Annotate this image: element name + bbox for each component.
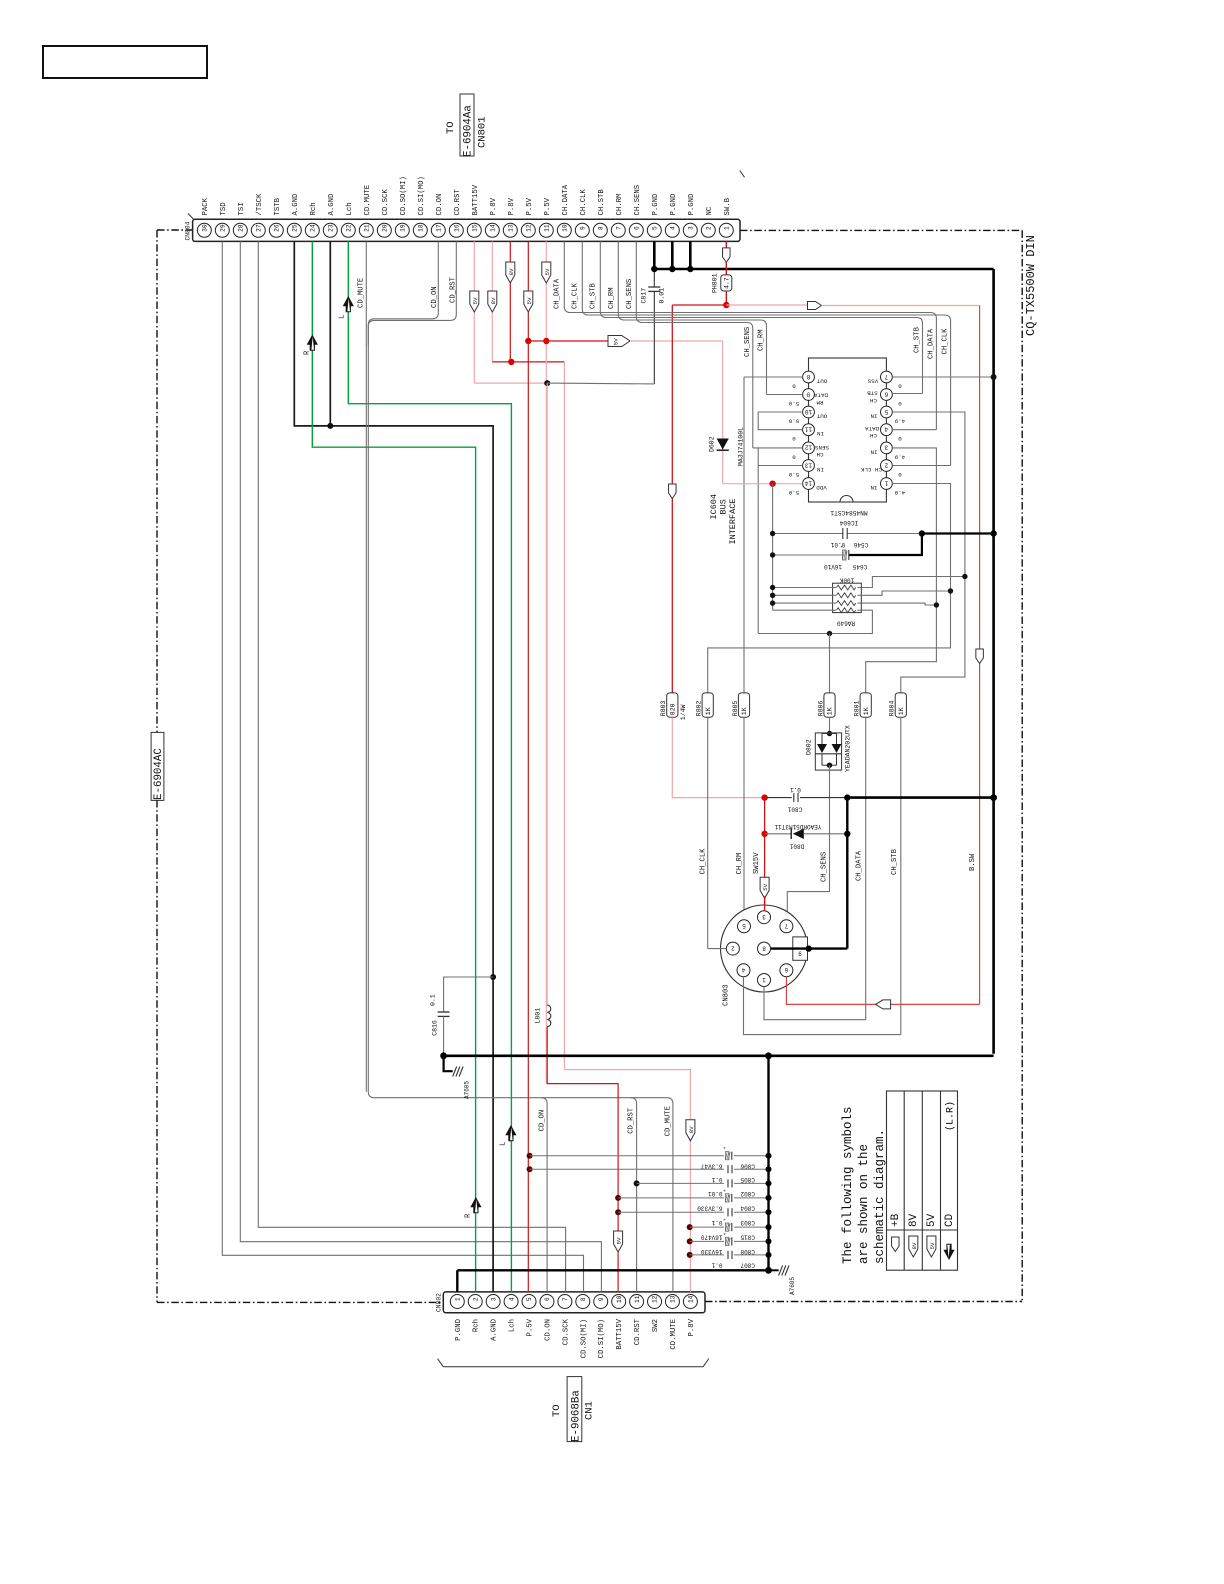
svg-text:10: 10 [805,408,813,415]
svg-text:820: 820 [670,703,677,715]
svg-text:0.01: 0.01 [659,288,666,304]
svg-text:17: 17 [436,224,443,232]
svg-text:CH_CLK: CH_CLK [700,848,708,875]
svg-text:CN804: CN804 [185,221,192,240]
svg-text:8V: 8V [490,297,497,304]
svg-text:CH: CH [870,397,877,404]
svg-text:CD_RST: CD_RST [628,1107,636,1134]
svg-text:RM: RM [816,399,823,406]
svg-text:P.8V: P.8V [688,1318,696,1336]
svg-text:5V: 5V [616,1237,623,1244]
svg-text:P.GND: P.GND [455,1318,463,1341]
svg-text:L: L [339,315,347,319]
svg-text:CH.STB: CH.STB [598,189,606,216]
svg-text:CD.MUTE: CD.MUTE [364,185,372,216]
svg-text:CQ-TX5500W DIN: CQ-TX5500W DIN [1024,235,1038,336]
svg-text:*: * [723,1188,726,1195]
svg-text:10: 10 [616,1295,623,1303]
svg-text:6: 6 [634,226,641,230]
svg-text:18: 18 [418,224,425,232]
svg-text:*: * [723,1218,726,1225]
svg-text:CH.CLK: CH.CLK [580,189,588,216]
svg-text:C802: C802 [740,1190,755,1197]
svg-text:CH_STB: CH_STB [891,848,899,875]
svg-text:6: 6 [884,390,888,397]
svg-text:0.1: 0.1 [790,786,801,793]
svg-text:P.5V: P.5V [526,197,534,215]
svg-text:Rch: Rch [310,202,318,215]
svg-text:2: 2 [706,226,713,230]
svg-text:6.3V47: 6.3V47 [700,1162,722,1169]
svg-text:25: 25 [292,224,299,232]
svg-text:1: 1 [884,479,888,486]
svg-text:CD.SI(MO): CD.SI(MO) [418,176,426,215]
svg-text:CD.SI(MO): CD.SI(MO) [598,1319,606,1358]
svg-text:5V: 5V [929,1242,936,1249]
svg-text:CD.SO(MI): CD.SO(MI) [580,1319,588,1358]
svg-text:TO: TO [551,1404,563,1417]
svg-text:7: 7 [784,922,788,929]
svg-text:100K: 100K [839,577,854,584]
svg-text:11: 11 [544,224,551,232]
svg-text:YEAORD51M3T11: YEAORD51M3T11 [774,823,821,830]
svg-text:C801: C801 [787,806,802,813]
svg-text:SW15V: SW15V [753,852,761,874]
svg-text:12: 12 [526,224,533,232]
svg-text:8: 8 [806,373,810,380]
svg-text:TSD: TSD [220,202,228,216]
svg-text:Lch: Lch [509,1319,517,1332]
svg-text:1: 1 [762,976,766,983]
svg-text:IN: IN [817,430,824,437]
svg-text:C546: C546 [853,541,868,548]
svg-text:CD_ON: CD_ON [538,1110,546,1132]
svg-text:0: 0 [898,435,902,442]
svg-text:SENS: SENS [815,444,829,451]
svg-text:NC: NC [706,206,714,215]
svg-text:8V: 8V [508,268,515,275]
svg-text:0.1: 0.1 [711,1219,722,1226]
svg-text:D802: D802 [806,739,813,755]
svg-text:CH_RM: CH_RM [758,329,766,351]
svg-text:15: 15 [472,224,479,232]
svg-text:CH_RM: CH_RM [608,287,616,309]
svg-text:IN: IN [817,466,824,473]
svg-text:L: L [499,1142,507,1146]
svg-text:0.1: 0.1 [711,1262,722,1269]
svg-text:MN4584CST1: MN4584CST1 [830,509,867,516]
svg-text:16: 16 [454,224,461,232]
svg-text:4.9: 4.9 [894,418,905,425]
svg-text:CD.SCK: CD.SCK [562,1318,570,1345]
svg-text:*: * [723,1232,726,1239]
svg-text:4: 4 [670,226,677,230]
svg-text:SW.B: SW.B [724,197,732,215]
svg-text:CD_RST: CD_RST [450,276,458,303]
svg-text:CD.SO(MI): CD.SO(MI) [400,176,408,215]
svg-text:TO: TO [445,121,457,134]
svg-text:5V: 5V [612,338,619,345]
svg-text:C808: C808 [740,1248,755,1255]
svg-text:C806: C806 [740,1162,755,1169]
svg-text:0.1: 0.1 [711,1176,722,1183]
svg-text:30: 30 [202,224,209,232]
svg-text:TSI: TSI [238,202,246,215]
svg-text:CH_CLK: CH_CLK [572,282,580,309]
svg-text:A7605: A7605 [464,1081,471,1099]
svg-text:The following symbols: The following symbols [841,1106,855,1264]
svg-text:23: 23 [328,224,335,232]
svg-text:R801: R801 [854,700,861,716]
svg-text:0.01: 0.01 [708,1190,723,1197]
svg-text:7: 7 [884,373,888,380]
svg-text:13: 13 [508,224,515,232]
svg-text:CD.SCK: CD.SCK [382,189,390,216]
svg-text:(L.R): (L.R) [945,1101,957,1131]
svg-text:2: 2 [472,1297,479,1301]
svg-text:1K: 1K [827,707,834,715]
svg-text:5V: 5V [544,268,551,275]
svg-text:DATA: DATA [814,392,828,399]
svg-text:C817: C817 [641,288,648,304]
svg-text:3: 3 [884,444,888,451]
svg-text:CD_ON: CD_ON [431,286,439,308]
svg-text:CH.SENS: CH.SENS [634,184,642,215]
svg-text:CD_MUTE: CD_MUTE [665,1106,673,1136]
svg-text:VSS: VSS [867,378,878,385]
svg-text:14: 14 [688,1295,695,1303]
svg-text:YEADAN202UTX: YEADAN202UTX [845,725,852,772]
svg-text:9: 9 [806,390,810,397]
svg-text:12: 12 [652,1295,659,1303]
svg-text:PH801: PH801 [712,273,719,293]
svg-text:C805: C805 [740,1176,755,1183]
svg-text:10: 10 [562,224,569,232]
svg-text:L801: L801 [535,1008,542,1024]
svg-text:1K: 1K [705,707,712,715]
svg-text:IN: IN [870,484,877,491]
svg-text:8V: 8V [688,1126,695,1133]
svg-text:5: 5 [652,226,659,230]
svg-text:P.GND: P.GND [652,193,660,216]
svg-text:DATA: DATA [865,425,879,432]
svg-text:5.0: 5.0 [788,400,799,407]
svg-text:5: 5 [884,408,888,415]
svg-text:A.GND: A.GND [328,193,336,216]
svg-text:5.0: 5.0 [788,418,799,425]
svg-text:P.5V: P.5V [527,1318,535,1336]
svg-text:3: 3 [688,226,695,230]
svg-text:P.GND: P.GND [670,193,678,216]
svg-text:A.GND: A.GND [491,1318,499,1341]
svg-text:P.GND: P.GND [688,193,696,216]
svg-text:22: 22 [346,224,353,232]
svg-text:CH CLK: CH CLK [861,466,882,473]
svg-text:BUS: BUS [719,499,729,514]
svg-text:C804: C804 [740,1205,755,1212]
svg-text:INTERFACE: INTERFACE [728,499,738,545]
svg-text:CH_DATA: CH_DATA [927,328,935,359]
svg-text:B.SW: B.SW [969,853,977,871]
svg-text:1: 1 [455,1297,462,1301]
svg-text:D801: D801 [789,843,804,850]
svg-text:CH_RM: CH_RM [736,853,744,875]
svg-text:C816: C816 [432,1020,439,1036]
svg-text:5: 5 [742,922,746,929]
svg-text:CH_SENS: CH_SENS [744,327,752,357]
svg-text:Lch: Lch [346,202,354,215]
svg-text:CD: CD [944,1213,956,1227]
svg-text:14: 14 [805,479,813,486]
svg-text:5V: 5V [762,883,769,890]
svg-text:8V: 8V [908,1213,920,1227]
svg-text:0: 0 [898,383,902,390]
svg-text:R805: R805 [732,700,739,716]
svg-text:6: 6 [544,1297,551,1301]
svg-text:BATT15V: BATT15V [472,184,480,215]
svg-text:11: 11 [634,1295,641,1303]
svg-text:CH: CH [816,451,823,458]
svg-text:A7605: A7605 [789,1277,796,1295]
svg-text:BATT15V: BATT15V [616,1318,624,1349]
svg-text:IN: IN [870,448,877,455]
svg-text:19: 19 [400,224,407,232]
svg-text:IN: IN [870,413,877,420]
svg-text:29: 29 [220,224,227,232]
svg-text:CD.ON: CD.ON [544,1319,552,1341]
svg-text:VDD: VDD [816,484,827,491]
svg-text:5V: 5V [926,1213,938,1227]
svg-text:CN801: CN801 [477,116,489,148]
svg-text:0: 0 [898,471,902,478]
svg-text:20: 20 [382,224,389,232]
svg-text:4: 4 [741,966,745,973]
svg-text:*: * [840,545,843,552]
svg-text:13: 13 [670,1295,677,1303]
svg-text:C645: C645 [852,563,867,570]
svg-text:PACK: PACK [202,197,210,215]
svg-text:R: R [465,1213,473,1218]
svg-text:1/4W: 1/4W [680,704,687,720]
svg-text:4.9: 4.9 [894,453,905,460]
svg-text:8: 8 [598,226,605,230]
svg-text:9: 9 [580,226,587,230]
svg-text:5V: 5V [472,297,479,304]
svg-text:RA640: RA640 [837,620,855,627]
svg-text:16V330: 16V330 [700,1248,722,1255]
svg-text:CH_SENS: CH_SENS [821,852,829,882]
svg-text:13: 13 [805,461,813,468]
svg-text:11: 11 [805,426,813,433]
svg-text:STB: STB [867,390,878,397]
svg-text:R: R [304,350,312,355]
svg-text:*: * [723,1146,726,1153]
svg-text:5: 5 [526,1297,533,1301]
svg-text:0: 0 [898,400,902,407]
svg-text:CH: CH [870,432,877,439]
svg-text:+B: +B [890,1213,902,1227]
svg-text:CH_DATA: CH_DATA [855,850,863,881]
svg-text:OUT: OUT [816,378,827,385]
svg-text:R803: R803 [660,700,667,716]
svg-text:4.9: 4.9 [894,489,905,496]
svg-text:CH.DATA: CH.DATA [562,184,570,215]
svg-text:CD.RST: CD.RST [454,189,462,216]
svg-text:CH_CLK: CH_CLK [942,328,950,355]
svg-text:CN803: CN803 [723,984,731,1006]
svg-text:CD.MUTE: CD.MUTE [670,1319,678,1350]
svg-text:3: 3 [490,1297,497,1301]
svg-text:0.1: 0.1 [430,994,437,1006]
svg-text:C807: C807 [740,1262,755,1269]
svg-text:schematic diagram.: schematic diagram. [873,1129,887,1264]
svg-text:0: 0 [792,435,796,442]
svg-text:9: 9 [798,950,802,957]
svg-text:R806: R806 [817,700,824,716]
svg-text:R802: R802 [696,700,703,716]
svg-text:CH_DATA: CH_DATA [553,278,561,309]
svg-text:CH_SENS: CH_SENS [626,279,634,309]
svg-text:C815: C815 [740,1234,755,1241]
svg-text:IC604: IC604 [839,519,858,526]
svg-text:3: 3 [762,913,766,920]
svg-text:E-6904Aa: E-6904Aa [463,105,475,157]
svg-text:5.0: 5.0 [788,489,799,496]
svg-text:0: 0 [792,383,796,390]
svg-text:CD.ON: CD.ON [436,194,444,216]
svg-text:4: 4 [884,426,888,433]
svg-text:14: 14 [490,224,497,232]
svg-text:1K: 1K [741,707,748,715]
svg-text:6.3V330: 6.3V330 [697,1205,723,1212]
svg-text:A.GND: A.GND [292,193,300,216]
svg-text:CH_STB: CH_STB [590,282,598,309]
svg-text:21: 21 [364,224,371,232]
svg-text:8: 8 [580,1297,587,1301]
svg-text:D602: D602 [709,436,716,452]
svg-text:P.8V: P.8V [508,197,516,215]
svg-text:9: 9 [598,1297,605,1301]
svg-text:CN1: CN1 [584,1401,596,1420]
svg-text:R804: R804 [889,700,896,716]
svg-text:28: 28 [238,224,245,232]
svg-text:/TSCK: /TSCK [256,193,264,216]
svg-text:CH_STB: CH_STB [913,326,921,353]
svg-text:1: 1 [724,226,731,230]
svg-text:27: 27 [255,224,262,232]
svg-text:1K: 1K [898,707,905,715]
svg-text:7: 7 [616,226,623,230]
svg-text:16V470: 16V470 [700,1234,722,1241]
svg-text:16V10: 16V10 [824,563,842,570]
svg-text:1K: 1K [863,707,870,715]
svg-text:0: 0 [792,453,796,460]
svg-text:CD_MUTE: CD_MUTE [358,278,366,308]
svg-text:E-9068Ba: E-9068Ba [571,1390,583,1442]
svg-text:P.5V: P.5V [544,197,552,215]
svg-text:5V: 5V [526,297,533,304]
svg-text:4: 4 [508,1297,515,1301]
svg-text:CD.RST: CD.RST [634,1318,642,1345]
svg-text:C803: C803 [740,1219,755,1226]
svg-text:6: 6 [784,966,788,973]
svg-text:7: 7 [562,1297,569,1301]
svg-text:OUT: OUT [816,413,827,420]
svg-text:TSTB: TSTB [274,197,282,215]
svg-text:CN802: CN802 [435,1293,442,1312]
svg-text:E-6904AC: E-6904AC [153,748,165,800]
svg-text:12: 12 [805,444,813,451]
svg-text:Rch: Rch [473,1319,481,1332]
svg-text:CH.RM: CH.RM [616,194,624,216]
svg-text:8V: 8V [911,1242,918,1249]
svg-text:24: 24 [310,224,317,232]
svg-text:5.0: 5.0 [788,471,799,478]
svg-text:P.8V: P.8V [490,197,498,215]
svg-text:SW2: SW2 [652,1319,660,1332]
svg-text:8: 8 [762,944,766,951]
svg-text:are shown on the: are shown on the [857,1144,871,1264]
svg-text:4.7: 4.7 [724,277,731,289]
svg-text:IC604: IC604 [709,494,719,520]
svg-text:26: 26 [274,224,281,232]
svg-text:2: 2 [731,944,735,951]
svg-text:2: 2 [884,461,888,468]
